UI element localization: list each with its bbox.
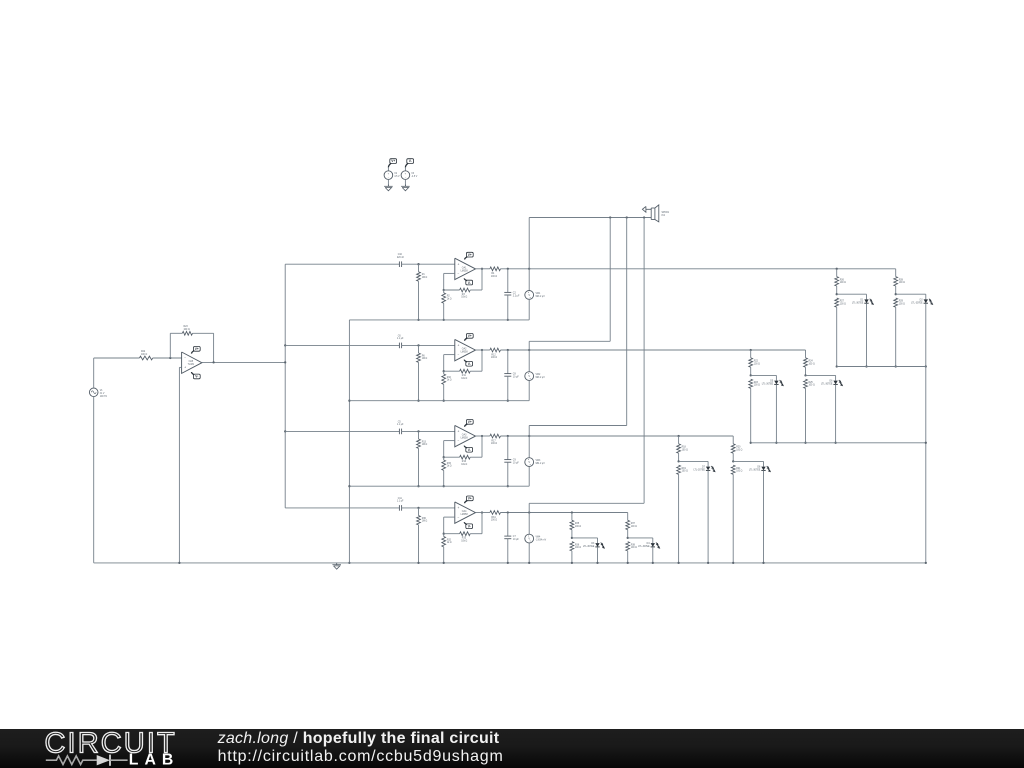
svg-text:R29: R29	[899, 301, 904, 303]
svg-text:100 Ω: 100 Ω	[840, 282, 846, 284]
svg-text:R22: R22	[141, 351, 146, 353]
svg-text:1k Ω: 1k Ω	[447, 466, 452, 468]
svg-text:R27: R27	[840, 301, 845, 303]
svg-text:100 Ω: 100 Ω	[754, 385, 760, 387]
svg-text:-4.5 V: -4.5 V	[411, 176, 418, 178]
svg-text:1M Ω: 1M Ω	[422, 521, 428, 523]
svg-text:1.1 µF: 1.1 µF	[397, 338, 404, 340]
svg-text:1M Ω: 1M Ω	[422, 444, 428, 446]
svg-text:1k Ω: 1k Ω	[447, 380, 452, 382]
svg-text:100 Ω: 100 Ω	[682, 471, 688, 473]
svg-text:R6: R6	[422, 355, 426, 357]
svg-text:C9: C9	[513, 460, 517, 462]
svg-text:993.2 µV: 993.2 µV	[536, 377, 546, 379]
svg-text:R35: R35	[575, 523, 580, 525]
svg-text:993.2 µV: 993.2 µV	[536, 296, 546, 298]
svg-text:C11: C11	[398, 498, 403, 500]
svg-text:C8: C8	[513, 374, 517, 376]
svg-text:100 Ω: 100 Ω	[682, 449, 688, 451]
svg-text:10 µF: 10 µF	[513, 539, 520, 541]
svg-text:R38: R38	[631, 544, 636, 546]
svg-text:100 Ω: 100 Ω	[491, 520, 497, 522]
svg-text:4.5 V: 4.5 V	[394, 176, 400, 178]
svg-text:100 Ω: 100 Ω	[899, 282, 905, 284]
svg-text:100 Ω: 100 Ω	[840, 303, 846, 305]
svg-text:R22: R22	[754, 361, 759, 363]
svg-text:OA3: OA3	[462, 434, 467, 437]
svg-text:C7: C7	[513, 536, 517, 538]
svg-text:LTL-307EE: LTL-307EE	[852, 302, 864, 304]
svg-text:−: −	[184, 356, 186, 360]
svg-text:C5: C5	[398, 421, 402, 423]
svg-text:OA1: OA1	[462, 266, 467, 269]
svg-text:LTL-307EE: LTL-307EE	[762, 384, 774, 386]
svg-text:V-: V-	[409, 159, 412, 163]
svg-text:100 Ω: 100 Ω	[491, 276, 497, 278]
svg-text:V+: V+	[468, 497, 472, 501]
svg-text:R10: R10	[447, 377, 452, 379]
svg-text:1M Ω: 1M Ω	[422, 358, 428, 360]
svg-text:100 Ω: 100 Ω	[736, 449, 742, 451]
svg-text:V: V	[528, 293, 530, 297]
svg-text:LM358: LM358	[461, 438, 469, 440]
svg-text:V+: V+	[468, 253, 472, 257]
svg-text:10k Ω: 10k Ω	[461, 378, 467, 380]
svg-text:+: +	[457, 506, 459, 510]
svg-text:+: +	[184, 366, 186, 370]
svg-text:8 Ω: 8 Ω	[662, 215, 666, 217]
svg-text:VM2: VM2	[536, 374, 541, 376]
svg-text:100 Ω: 100 Ω	[184, 329, 190, 331]
svg-text:R3: R3	[462, 294, 466, 296]
svg-text:−: −	[457, 272, 459, 276]
svg-text:R17: R17	[491, 440, 496, 442]
svg-text:LM358: LM358	[461, 514, 469, 516]
svg-text:R37: R37	[631, 523, 636, 525]
svg-text:1.1 µF: 1.1 µF	[397, 424, 404, 426]
svg-text:V-: V-	[468, 448, 471, 452]
svg-text:10k Ω: 10k Ω	[461, 297, 467, 299]
svg-text:V-: V-	[468, 362, 471, 366]
svg-text:R15: R15	[447, 463, 452, 465]
svg-text:D1: D1	[860, 299, 864, 301]
svg-text:LTL-307EE: LTL-307EE	[911, 302, 923, 304]
svg-text:OA5: OA5	[189, 360, 194, 363]
svg-text:LTL-307EE: LTL-307EE	[821, 384, 833, 386]
svg-text:R21: R21	[736, 468, 741, 470]
svg-text:D8: D8	[757, 467, 761, 469]
svg-text:D4: D4	[647, 543, 651, 545]
svg-text:LTL-307EE: LTL-307EE	[749, 470, 761, 472]
svg-text:R16: R16	[462, 461, 467, 463]
svg-text:V3: V3	[411, 173, 415, 175]
svg-text:10k Ω: 10k Ω	[461, 464, 467, 466]
svg-text:100 Ω: 100 Ω	[754, 363, 760, 365]
svg-text:1k Ω: 1k Ω	[447, 542, 452, 544]
svg-text:D7: D7	[702, 467, 706, 469]
svg-text:100 Ω: 100 Ω	[575, 547, 581, 549]
svg-text:SPKR1: SPKR1	[662, 212, 670, 214]
svg-text:D5: D5	[770, 381, 774, 383]
svg-text:D2: D2	[920, 299, 924, 301]
svg-text:VM4: VM4	[536, 537, 541, 539]
svg-text:100 Ω: 100 Ω	[631, 547, 637, 549]
svg-text:D3: D3	[591, 543, 595, 545]
svg-text:C10: C10	[398, 254, 403, 256]
svg-text:1.1 µF: 1.1 µF	[397, 501, 404, 503]
svg-text:R11: R11	[462, 375, 467, 377]
svg-text:±1 V: ±1 V	[100, 393, 105, 395]
svg-text:100 Ω: 100 Ω	[631, 526, 637, 528]
svg-text:100 Ω: 100 Ω	[491, 443, 497, 445]
svg-text:1M Ω: 1M Ω	[422, 277, 428, 279]
svg-text:R18: R18	[682, 447, 687, 449]
svg-text:R33: R33	[462, 538, 467, 540]
svg-text:R12: R12	[491, 354, 496, 356]
svg-text:LTL-307EE: LTL-307EE	[693, 470, 705, 472]
svg-text:OA2: OA2	[462, 348, 467, 351]
svg-text:R1: R1	[422, 274, 426, 276]
svg-text:VM1: VM1	[536, 293, 541, 295]
svg-text:10k Ω: 10k Ω	[461, 540, 467, 542]
svg-text:OA4: OA4	[462, 510, 467, 513]
svg-text:V: V	[528, 460, 530, 464]
svg-text:+: +	[457, 344, 459, 348]
svg-text:V+: V+	[391, 159, 395, 163]
svg-text:R28: R28	[899, 279, 904, 281]
svg-text:V1: V1	[100, 390, 104, 392]
svg-text:100 Ω: 100 Ω	[491, 357, 497, 359]
svg-text:R23: R23	[184, 326, 189, 328]
svg-text:100 Ω: 100 Ω	[809, 363, 815, 365]
svg-text:R25: R25	[809, 382, 814, 384]
svg-text:LM358: LM358	[461, 270, 469, 272]
svg-text:R26: R26	[840, 279, 845, 281]
svg-text:R36: R36	[575, 544, 580, 546]
svg-text:R19: R19	[682, 468, 687, 470]
svg-text:100 Ω: 100 Ω	[809, 385, 815, 387]
svg-text:100 Ω: 100 Ω	[575, 526, 581, 528]
svg-text:100 Ω: 100 Ω	[141, 354, 147, 356]
svg-text:V+: V+	[468, 334, 472, 338]
svg-text:R32: R32	[447, 539, 452, 541]
svg-text:V-: V-	[468, 525, 471, 529]
svg-text:LTL-307EE: LTL-307EE	[583, 546, 595, 548]
svg-text:-2.834 mV: -2.834 mV	[536, 540, 547, 542]
svg-text:R30: R30	[422, 518, 427, 520]
svg-text:R23: R23	[754, 382, 759, 384]
svg-text:100 Ω: 100 Ω	[736, 471, 742, 473]
svg-text:V: V	[528, 537, 530, 541]
svg-text:100 Hz: 100 Hz	[100, 396, 108, 398]
svg-text:R20: R20	[736, 447, 741, 449]
svg-text:100 Ω: 100 Ω	[899, 303, 905, 305]
svg-text:C6: C6	[398, 335, 402, 337]
svg-text:−: −	[457, 439, 459, 443]
svg-text:V+: V+	[468, 420, 472, 424]
svg-text:220 nF: 220 nF	[397, 257, 405, 259]
svg-text:LM358: LM358	[461, 352, 469, 354]
svg-text:V2: V2	[394, 173, 398, 175]
svg-text:LTL-307EE: LTL-307EE	[638, 546, 650, 548]
svg-text:C2: C2	[513, 293, 517, 295]
svg-text:984.2 µV: 984.2 µV	[536, 463, 546, 465]
svg-text:2.2 µF: 2.2 µF	[513, 295, 520, 297]
svg-text:VM3: VM3	[536, 460, 541, 462]
svg-text:D6: D6	[829, 381, 833, 383]
svg-text:LAB: LAB	[129, 752, 179, 768]
svg-text:1k Ω: 1k Ω	[447, 298, 452, 300]
svg-text:R24: R24	[809, 361, 814, 363]
svg-text:R2: R2	[447, 296, 451, 298]
svg-text:+: +	[457, 430, 459, 434]
svg-text:10 µF: 10 µF	[513, 377, 520, 379]
svg-text:10 µF: 10 µF	[513, 463, 520, 465]
svg-text:V-: V-	[195, 375, 198, 379]
svg-text:R13: R13	[422, 441, 427, 443]
svg-text:TL081: TL081	[188, 364, 195, 366]
svg-text:R4: R4	[491, 273, 495, 275]
svg-text:V+: V+	[195, 347, 199, 351]
svg-text:+: +	[457, 262, 459, 266]
svg-text:−: −	[457, 516, 459, 520]
svg-text:V: V	[528, 374, 530, 378]
svg-text:V-: V-	[468, 281, 471, 285]
svg-text:R34: R34	[491, 517, 496, 519]
svg-text:−: −	[457, 353, 459, 357]
